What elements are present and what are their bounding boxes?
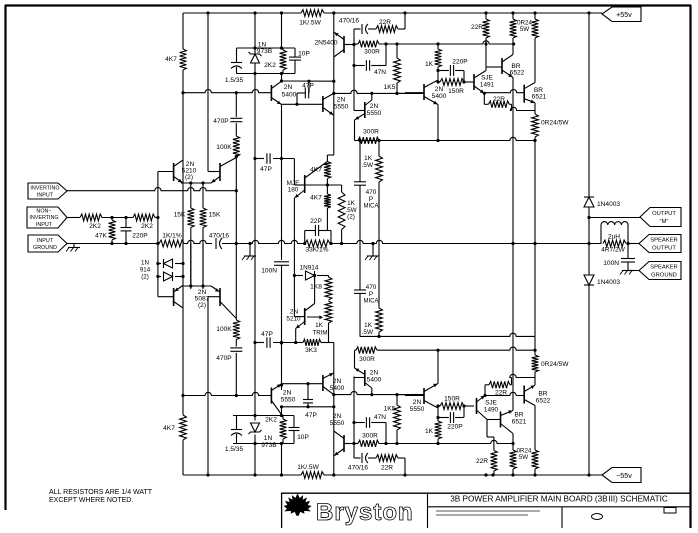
potentiometer 1K TRIM	[307, 301, 332, 343]
svg-text:1N914: 1N914	[300, 265, 319, 272]
transistor 2N5400 driver top	[334, 32, 354, 57]
svg-text:1K5: 1K5	[384, 84, 396, 91]
wire bus x334 top	[333, 13, 335, 115]
capacitor 10P top	[289, 48, 310, 74]
capacitor 47N top	[352, 44, 386, 76]
node mid rail	[340, 242, 343, 245]
wire 100K to cap	[235, 340, 237, 347]
svg-text:TRIM: TRIM	[312, 330, 327, 337]
resistor 4K7 upper left	[165, 49, 186, 70]
svg-text:5W: 5W	[520, 26, 529, 33]
node top rail x=255	[253, 11, 256, 14]
resistor 1K top	[425, 44, 441, 82]
label 2N5550 vas2	[281, 390, 296, 404]
capacitor 100N	[261, 262, 289, 275]
svg-text:1N: 1N	[264, 435, 273, 442]
wire bus x236 low	[235, 244, 237, 321]
svg-text:4K7: 4K7	[310, 167, 322, 174]
svg-text:5550: 5550	[281, 397, 296, 404]
wire sje emitter bottom node	[483, 385, 486, 397]
Bryston logo wordmark	[316, 499, 414, 526]
svg-text:SJE: SJE	[485, 400, 497, 407]
node bottom rail x=208	[206, 473, 209, 476]
wire bus x334 bottom	[333, 373, 335, 475]
node bottom rail x=333	[332, 473, 335, 476]
wire mid rail a	[184, 240, 212, 243]
node top rail x=405	[403, 11, 406, 14]
svg-text:22P: 22P	[310, 218, 322, 225]
label MJE180	[287, 180, 300, 194]
wire mid rail d	[628, 243, 639, 245]
capacitor 470/16 bottom	[348, 453, 369, 472]
svg-text:(2): (2)	[347, 214, 355, 221]
transistor 2N5210 servo	[296, 276, 315, 329]
svg-text:15K: 15K	[209, 212, 221, 219]
wire noninv input	[67, 217, 80, 219]
transistor 2N5550 predriver2	[354, 93, 372, 120]
+55v power flag	[602, 7, 641, 22]
resistor 3K3	[296, 339, 329, 354]
resistor 0R24/5W c	[532, 103, 570, 142]
svg-text:220P: 220P	[452, 59, 468, 66]
svg-text:INVERTING: INVERTING	[29, 215, 58, 221]
wire bus x236 mid	[235, 155, 238, 244]
wire mje base riser	[294, 159, 304, 186]
svg-text:5400: 5400	[367, 377, 382, 384]
wire y350 line	[377, 347, 537, 352]
wire out vert b	[533, 141, 536, 351]
ground mid a	[242, 242, 256, 260]
resistor 300R bottom b	[356, 347, 377, 363]
svg-text:Bryston: Bryston	[316, 499, 414, 526]
resistor 0R24 5W a bottom	[510, 434, 517, 476]
svg-text:10P: 10P	[297, 434, 309, 441]
svg-text:1K: 1K	[425, 428, 434, 435]
wire vas2 to servo	[280, 265, 283, 386]
title block lower divider	[561, 507, 563, 528]
resistor 300R top b	[358, 129, 379, 144]
node bottom rail x=486	[484, 473, 487, 476]
node mid rail	[533, 242, 536, 245]
label SJE1490	[484, 400, 499, 414]
resistor 1K bottom	[425, 406, 441, 444]
wire x354 top	[352, 29, 355, 111]
label BR6521 bottom	[512, 412, 527, 426]
label SJE1491	[480, 75, 495, 89]
svg-text:100N: 100N	[261, 268, 277, 275]
node bottom rail x=255	[253, 473, 256, 476]
resistor 300R bottom a	[358, 433, 379, 447]
wire zener box top	[237, 48, 296, 74]
svg-text:1490: 1490	[484, 407, 499, 414]
wire y343 to predriver	[329, 343, 334, 373]
resistor 33K/1%	[305, 240, 330, 253]
svg-text:2K2: 2K2	[265, 417, 277, 424]
transistor SJE1491	[474, 71, 486, 94]
node top rail x=535	[533, 11, 536, 14]
label 1N973B top	[257, 42, 273, 56]
svg-text:2N: 2N	[370, 370, 379, 377]
wire riser 281 bottom	[280, 442, 283, 475]
wire zener box bottom	[233, 416, 294, 444]
wire pair emitters	[181, 181, 211, 184]
wire y444 sense line	[354, 440, 515, 445]
resistor 100K top	[216, 136, 239, 157]
svg-text:(2): (2)	[185, 174, 193, 181]
diode 1N914 servo	[294, 265, 328, 281]
capacitor 220P bottom	[436, 406, 464, 431]
inductor 2uH	[601, 222, 628, 244]
svg-text:470P: 470P	[216, 355, 232, 362]
svg-text:220P: 220P	[132, 233, 148, 240]
svg-text:6522: 6522	[536, 398, 551, 405]
svg-text:2N: 2N	[435, 86, 444, 93]
svg-text:5W: 5W	[519, 454, 528, 461]
svg-text:300R: 300R	[363, 129, 379, 136]
transistor 2N5210 pair right	[208, 158, 236, 184]
inverting input flag	[28, 183, 67, 199]
svg-text:470/16: 470/16	[209, 233, 230, 240]
Bryston logo maple leaf	[284, 494, 311, 516]
wire bottom -55 rail	[183, 474, 602, 476]
node mid rail	[110, 242, 113, 245]
label BR6521	[532, 87, 547, 101]
node bottom rail x=493	[491, 473, 494, 476]
resistor 100K bottom	[216, 320, 239, 340]
transistor BR6522 bottom	[485, 385, 535, 405]
wire riser 281 top	[280, 13, 283, 50]
node mid rail	[235, 242, 238, 245]
speaker ground flag	[639, 262, 681, 280]
svg-text:BR: BR	[514, 412, 523, 419]
node top rail x=281	[280, 11, 283, 14]
svg-text:15K: 15K	[174, 212, 186, 219]
label 2N5400 driver2 top	[432, 86, 447, 100]
svg-text:1.5/35: 1.5/35	[225, 77, 244, 84]
svg-text:3B POWER AMPLIFIER MAIN BO: 3B POWER AMPLIFIER MAIN BOARD (3B III) S…	[450, 495, 668, 504]
svg-text:INPUT: INPUT	[36, 222, 53, 228]
svg-text:22R: 22R	[476, 458, 488, 465]
wire servo base riser	[293, 274, 305, 317]
svg-text:2N5400: 2N5400	[314, 40, 337, 47]
wire sje emitter node	[483, 92, 486, 105]
transistor 2N5087 pair right	[208, 286, 236, 319]
svg-text:6521: 6521	[532, 94, 547, 101]
wire pair2 emitters	[181, 284, 211, 287]
node bottom rail x=589	[587, 473, 590, 476]
svg-text:2K2: 2K2	[141, 223, 153, 230]
svg-text:300R: 300R	[362, 433, 378, 440]
svg-text:5550: 5550	[330, 420, 345, 427]
wire bus x208 bottom	[207, 297, 209, 475]
svg-text:1K/.5W: 1K/.5W	[297, 464, 319, 471]
svg-text:1K: 1K	[315, 322, 324, 329]
zener 1N973B bottom	[249, 414, 262, 445]
svg-text:47P: 47P	[305, 412, 317, 419]
node mid rail	[156, 242, 159, 245]
wire y336 line	[360, 333, 535, 338]
wire top +55 rail	[183, 12, 602, 14]
svg-text:100K: 100K	[216, 144, 232, 151]
wire bottom fb row	[354, 458, 405, 475]
svg-text:470/16: 470/16	[339, 18, 360, 25]
svg-text:ALL RESISTORS ARE 1/4 WATT: ALL RESISTORS ARE 1/4 WATT	[49, 489, 153, 496]
node bottom rail x=513	[511, 473, 514, 476]
wire y44 sense line	[354, 41, 515, 46]
output M flag	[640, 208, 681, 227]
svg-text:(2): (2)	[198, 302, 206, 309]
node top rail x=486	[484, 11, 487, 14]
svg-text:22R: 22R	[493, 96, 505, 103]
resistor 0R24 5W a	[510, 13, 517, 55]
label 2N5400 driver top	[314, 40, 337, 47]
resistor 22R bottom row	[376, 455, 398, 472]
resistor 15K right	[200, 208, 221, 228]
svg-text:4K7: 4K7	[310, 195, 322, 202]
svg-text:EXCEPT WHERE NOTED.: EXCEPT WHERE NOTED.	[49, 497, 133, 504]
resistor 0R24/5W c bottom	[532, 350, 570, 385]
svg-text:2N: 2N	[284, 84, 293, 91]
capacitor 470P bottom	[216, 348, 242, 362]
capacitor 470P top	[213, 118, 242, 125]
wire driver2 emitter	[437, 105, 439, 141]
ground speaker	[620, 271, 639, 275]
wire y93 line	[332, 90, 424, 95]
resistor 47K	[95, 218, 115, 244]
svg-text:1K/1%: 1K/1%	[162, 233, 182, 240]
transistor 2N5210 pair left	[158, 160, 183, 183]
wire x354 bottom	[352, 377, 355, 459]
svg-text:4K7: 4K7	[163, 425, 175, 432]
wire predriver2 emitter	[355, 120, 359, 141]
capacitor 220P top	[436, 59, 468, 83]
svg-text:(2): (2)	[141, 273, 149, 280]
resistor 0R24 5W b	[517, 13, 538, 83]
transistor 2N5550 vas2	[271, 384, 281, 415]
svg-text:47N: 47N	[374, 69, 386, 76]
capacitor 47P servo	[253, 331, 295, 348]
svg-text:47P: 47P	[302, 83, 314, 90]
label 1N914(2)	[140, 260, 151, 281]
resistor 1K5 top	[384, 44, 401, 93]
capacitor 470P MICA bottom	[354, 284, 379, 336]
label BR6522 bottom	[536, 391, 551, 405]
svg-text:22R: 22R	[379, 19, 391, 26]
transistor BR6521 bottom	[501, 410, 514, 433]
svg-text:2N: 2N	[337, 97, 346, 104]
svg-text:.5W: .5W	[362, 329, 374, 336]
capacitor 470/16 top	[339, 18, 368, 35]
wire tail right lower	[202, 228, 204, 290]
transistor SJE1490	[477, 396, 488, 420]
label 2N5550 driver2 bottom	[410, 399, 425, 413]
svg-text:5550: 5550	[367, 110, 382, 117]
svg-text:1.5/35: 1.5/35	[225, 446, 244, 453]
diode 1N4003 top	[584, 197, 620, 208]
svg-text:2N: 2N	[333, 378, 342, 385]
svg-text:SPEAKER: SPEAKER	[650, 238, 677, 244]
wire input node	[102, 216, 133, 219]
svg-text:470/16: 470/16	[348, 465, 369, 472]
capacitor 470P MICA top	[354, 182, 379, 244]
node mid rail	[587, 242, 590, 245]
resistor 15K left	[174, 208, 195, 228]
svg-text:47P: 47P	[260, 166, 272, 173]
svg-text:INPUT: INPUT	[37, 238, 54, 244]
wire bus x255	[254, 13, 256, 475]
svg-text:1K5: 1K5	[384, 406, 396, 413]
wire tail left	[190, 183, 192, 208]
wire tails join	[191, 244, 203, 287]
svg-text:3K3: 3K3	[305, 347, 317, 354]
diode 1N914 a	[158, 259, 183, 268]
svg-text:.5W: .5W	[362, 162, 374, 169]
svg-text:973B: 973B	[257, 48, 273, 55]
svg-text:1491: 1491	[480, 82, 495, 89]
transistor 2N5087 pair left	[158, 286, 183, 308]
resistor 22R top row	[376, 19, 398, 32]
label 2N5210 servo	[286, 309, 301, 323]
transistor BR6522	[502, 55, 513, 78]
svg-text:6521: 6521	[512, 419, 527, 426]
wire x360 top	[358, 139, 361, 182]
title block frame	[281, 493, 691, 528]
svg-text:180: 180	[288, 187, 299, 194]
wire 22P posts	[303, 231, 333, 246]
label 2N5550 predriver2	[367, 103, 382, 117]
label 2N5400 predriver2 bottom	[367, 370, 382, 384]
node mid rail	[124, 242, 127, 245]
resistor 22R top v	[471, 13, 489, 38]
wire tail left lower	[190, 228, 192, 290]
svg-text:2N: 2N	[370, 103, 379, 110]
transistor BR6521	[484, 83, 535, 104]
svg-text:47N: 47N	[374, 414, 386, 421]
svg-text:22R: 22R	[381, 465, 393, 472]
node mid rail	[511, 242, 514, 245]
capacitor 220P input	[121, 218, 149, 244]
svg-text:GROUND: GROUND	[33, 245, 57, 251]
svg-text:2K2: 2K2	[89, 223, 101, 230]
resistor 4R7/2W	[601, 240, 626, 253]
svg-text:100K: 100K	[216, 326, 232, 333]
wire mid rail c	[331, 240, 601, 243]
capacitor 10P bottom	[289, 416, 310, 444]
resistor 1K/.5W top rail	[299, 10, 324, 27]
wire predriver2 emitter bottom	[355, 350, 357, 368]
svg-text:6522: 6522	[510, 70, 525, 77]
resistor 1K/1%	[159, 233, 184, 247]
svg-text:1K: 1K	[364, 155, 373, 162]
diode 1N4003 bottom	[584, 275, 620, 286]
resistor 22R top h	[484, 96, 535, 111]
svg-text:−55v: −55v	[616, 471, 632, 480]
wire bus x158	[157, 172, 159, 297]
wire vas2 collector	[280, 385, 336, 417]
resistor 4K7 bias b	[310, 194, 331, 208]
note text	[49, 489, 153, 504]
svg-text:914: 914	[140, 266, 151, 273]
wire x589	[588, 13, 590, 475]
svg-text:OUTPUT: OUTPUT	[652, 246, 676, 252]
svg-text:0R24/5W: 0R24/5W	[541, 120, 569, 127]
svg-text:47K: 47K	[95, 233, 107, 240]
node top rail x=589	[587, 11, 590, 14]
wire tail right	[202, 183, 204, 208]
svg-text:INPUT: INPUT	[37, 193, 54, 199]
capacitor 47P a	[253, 153, 294, 173]
svg-text:22R: 22R	[471, 24, 483, 31]
node diodes	[156, 262, 184, 278]
label 2N5400 vas	[282, 84, 297, 99]
transistor 2N5400 driver2 top	[405, 80, 438, 105]
wire vas2 input line	[181, 392, 271, 397]
label BR6522	[510, 63, 525, 77]
wire inverting input line	[67, 188, 238, 193]
svg-text:OUTPUT: OUTPUT	[652, 211, 676, 217]
ground mid b	[365, 242, 379, 260]
svg-text:5400: 5400	[432, 93, 447, 100]
zener 1N973B top	[249, 46, 262, 75]
wire y395 line	[332, 391, 424, 396]
node bottom rail x=405	[403, 473, 406, 476]
svg-text:300R: 300R	[364, 49, 380, 56]
wire y93 to driver2	[397, 92, 424, 94]
svg-text:1N4003: 1N4003	[597, 279, 620, 286]
svg-text:150R: 150R	[448, 88, 464, 95]
resistor 22R bottom h	[485, 374, 535, 396]
svg-text:1K/.5W: 1K/.5W	[299, 20, 321, 27]
svg-text:P: P	[369, 196, 373, 203]
wire bus 281 upper	[281, 105, 283, 261]
svg-text:"M": "M"	[660, 219, 669, 225]
wire top fb row	[354, 13, 405, 29]
wire x360 bottom	[359, 244, 361, 291]
wire mid rail b	[222, 240, 305, 243]
label 1N973B bottom	[261, 435, 277, 449]
wire br6522 emitter column	[511, 78, 514, 411]
svg-text:SPEAKER: SPEAKER	[650, 265, 677, 271]
speaker output flag	[639, 235, 681, 253]
capacitor 22P	[305, 218, 331, 236]
-55v power flag	[602, 468, 641, 483]
capacitor 1.5/35 top	[225, 48, 244, 84]
title text	[450, 495, 668, 504]
wire 470P tail	[235, 353, 237, 396]
transistor 2N5400 predriver2 bottom	[354, 368, 372, 395]
wire bias node	[327, 115, 333, 161]
svg-text:SJE: SJE	[481, 75, 493, 82]
resistor 2K2 bias bottom	[265, 416, 286, 444]
wire y140 line	[358, 137, 537, 142]
svg-text:2N: 2N	[333, 413, 342, 420]
svg-text:5400: 5400	[282, 92, 297, 99]
resistor 150R bottom	[436, 396, 474, 410]
svg-text:4R7/2W: 4R7/2W	[601, 247, 626, 254]
wire y395 to driver2 bottom	[397, 394, 424, 396]
svg-text:1N4003: 1N4003	[597, 201, 620, 208]
wire driver2 emitter bottom	[437, 350, 439, 383]
label 2N5550 predriver	[334, 97, 349, 111]
svg-text:MICA: MICA	[364, 299, 379, 305]
wire sje collector	[484, 38, 502, 71]
svg-text:MICA: MICA	[364, 204, 379, 210]
resistor 1K.5W top	[362, 139, 383, 244]
node mid rail	[626, 242, 629, 245]
input ground flag	[28, 235, 67, 252]
label 2N5087	[195, 289, 210, 309]
svg-text:NON−: NON−	[36, 209, 51, 215]
